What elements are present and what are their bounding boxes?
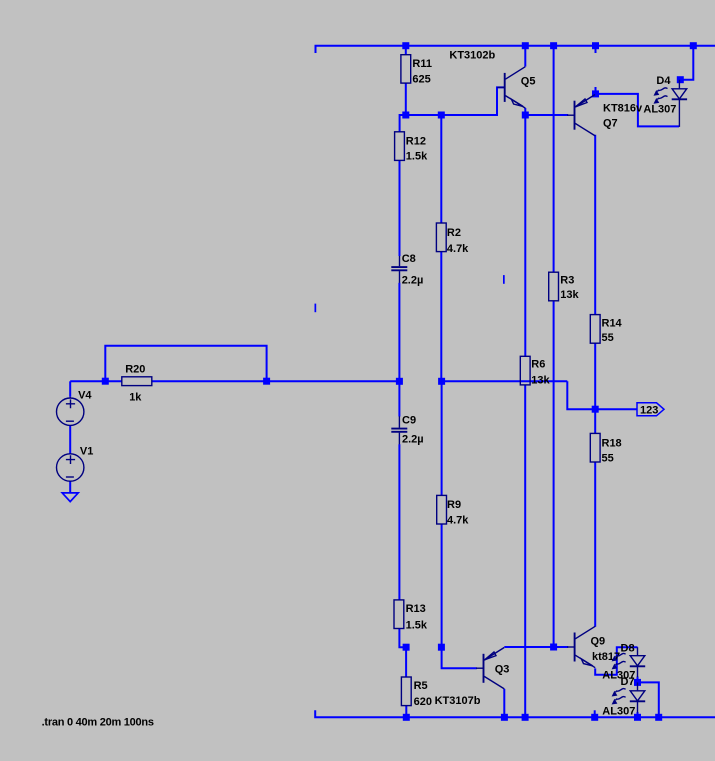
- svg-text:123: 123: [640, 404, 658, 416]
- capacitor C8: [391, 253, 423, 286]
- wire node y381 to R9 top: [441, 381, 443, 495]
- wire Q9 emitter jog to D8 anode: [595, 647, 637, 675]
- wire node y647 jog to Q3 base: [442, 647, 477, 668]
- wire R12 top / node y115 run to Q5 base: [400, 87, 504, 131]
- svg-text:R13: R13: [406, 603, 426, 615]
- wire R20 right pin to C-column node: [152, 380, 400, 382]
- wire D7 cathode to bottom rail: [637, 712, 639, 717]
- wire rail to D4 anode node: [680, 46, 693, 80]
- junction node on rail at R11: [402, 42, 409, 49]
- svg-text:D7: D7: [621, 676, 635, 688]
- junction node bottom rail at D7: [634, 714, 641, 721]
- wire Q3 collector to bottom rail: [503, 689, 505, 717]
- junction node at D4 anode: [677, 76, 684, 83]
- wire R9 bottom to node y647: [441, 524, 443, 647]
- wire node y381 to C9 top: [398, 381, 400, 416]
- svg-text:C9: C9: [402, 415, 416, 427]
- resistor R11: [401, 55, 432, 86]
- junction node on rail at Q5 collector: [522, 42, 529, 49]
- resistor R20: [122, 363, 152, 403]
- svg-text:55: 55: [602, 452, 614, 464]
- junction node on rail at D4 branch: [690, 42, 697, 49]
- wire Q5 collector to rail: [524, 46, 526, 67]
- wire bottom rail: [315, 710, 715, 717]
- wire V4 top pin: [69, 381, 71, 397]
- resistor R6: [520, 356, 550, 386]
- svg-text:R5: R5: [414, 680, 428, 692]
- wire V1 to ground: [69, 481, 71, 493]
- svg-text:KT3102b: KT3102b: [449, 50, 495, 62]
- svg-text:Q7: Q7: [603, 118, 618, 130]
- wire Q7 emitter node to D4 cathode: [596, 94, 680, 127]
- svg-text:55: 55: [602, 332, 614, 344]
- junction node y381 at R2/R9 column: [438, 378, 445, 385]
- junction node on rail at x595 stub: [592, 42, 599, 49]
- svg-text:1.5k: 1.5k: [406, 620, 428, 632]
- svg-text:R9: R9: [447, 499, 461, 511]
- svg-text:R12: R12: [406, 135, 426, 147]
- svg-text:Q5: Q5: [521, 76, 536, 88]
- wire vertical x553 R3 bottom to node y647: [553, 301, 555, 647]
- wire Q7 collector to R14 top: [594, 135, 596, 315]
- junction node on rail at R3 column: [550, 42, 557, 49]
- svg-text:4.7k: 4.7k: [447, 243, 469, 255]
- svg-text:13k: 13k: [560, 289, 579, 301]
- wire C8 bottom to node y381: [398, 283, 400, 382]
- svg-text:KT816v: KT816v: [603, 103, 643, 115]
- wire node y115 to Q7 base: [525, 114, 568, 116]
- svg-text:R20: R20: [125, 363, 145, 375]
- wire R18 bottom to Q9 collector: [594, 462, 596, 627]
- wire top supply rail: [316, 46, 715, 53]
- svg-text:D4: D4: [656, 75, 671, 87]
- resistor R13: [394, 600, 428, 632]
- wire vertical x525 node y115 to R6 top: [524, 115, 526, 356]
- transistor Q3 (PNP KT3107b): [435, 648, 510, 708]
- wire C9 bottom to R13 top: [398, 444, 400, 600]
- wire node y115 to R2 top: [440, 115, 442, 223]
- junction node at Q7 emitter: [592, 90, 599, 97]
- wire stub below top rail at x595: [595, 46, 597, 53]
- svg-text:D8: D8: [621, 643, 635, 655]
- wire D8 cathode to node: [637, 677, 639, 683]
- svg-text:620: 620: [414, 696, 432, 708]
- wire R12 bottom to C8: [399, 160, 401, 256]
- wire R5 bottom to bottom rail: [405, 706, 407, 718]
- net tick mark left: [315, 304, 317, 313]
- wire vertical x553 rail to R3 top: [553, 46, 555, 273]
- wire Q3 emitter to Q9 base: [504, 646, 568, 648]
- svg-text:Q3: Q3: [495, 664, 510, 676]
- voltage source V4: [56, 390, 92, 426]
- resistor R14: [590, 315, 622, 344]
- resistor R18: [590, 433, 621, 464]
- svg-text:V4: V4: [78, 390, 92, 402]
- junction node y647 at R9 column: [438, 644, 445, 651]
- resistor R9: [437, 495, 470, 526]
- svg-text:2.2µ: 2.2µ: [402, 274, 424, 286]
- wire V4 to V1: [69, 426, 71, 454]
- net tick mark middle: [503, 275, 505, 284]
- wire R11 top pin to rail: [405, 46, 407, 55]
- svg-text:R6: R6: [531, 359, 545, 371]
- LED D8 (AL307): [602, 643, 645, 682]
- capacitor C9: [391, 415, 423, 446]
- resistor R3: [549, 272, 580, 301]
- junction node y115 at R2 column: [438, 112, 445, 119]
- transistor Q9 (NPN kt817): [567, 626, 620, 667]
- junction node y381 at C column: [396, 378, 403, 385]
- wire R11 bottom to node y115: [405, 83, 407, 115]
- svg-text:R14: R14: [602, 318, 623, 330]
- ground: [62, 493, 78, 502]
- resistor R5: [401, 677, 432, 708]
- wire main horizontal right section: [442, 380, 568, 382]
- wire node y647 down to R5 top: [405, 647, 407, 677]
- junction node bottom rail at x525: [522, 714, 529, 721]
- junction node y647 at R13/R5: [403, 644, 410, 651]
- wire node y409 to output flag: [595, 408, 637, 410]
- svg-text:V1: V1: [80, 445, 93, 457]
- svg-text:Q9: Q9: [591, 635, 606, 647]
- wire jog from output horizontal down to node y409: [567, 381, 595, 409]
- svg-text:R2: R2: [447, 227, 461, 239]
- LED D4 (AL307): [643, 75, 687, 127]
- voltage source V1: [56, 445, 93, 481]
- wire R13 bottom jog to node y647: [399, 629, 406, 648]
- junction node bottom rail at D8 right leg: [655, 714, 662, 721]
- wire stub above Q7 emitter node: [595, 87, 597, 94]
- transistor Q5 (NPN KT3102b): [497, 67, 535, 108]
- svg-text:1.5k: 1.5k: [406, 150, 428, 162]
- junction node y409 output: [592, 406, 599, 413]
- svg-text:AL307: AL307: [602, 705, 635, 717]
- LED D7 (AL307): [602, 676, 645, 717]
- junction node y115 at R11/R12: [402, 112, 409, 119]
- node 123 output flag: [637, 403, 664, 417]
- svg-text:C8: C8: [402, 253, 416, 265]
- junction node bottom rail at Q3 collector: [501, 714, 508, 721]
- junction node y381 at loop left: [102, 378, 109, 385]
- junction node y381 at loop right: [263, 378, 270, 385]
- wire D8/D7 node right leg to bottom rail: [638, 682, 659, 717]
- svg-text:4.7k: 4.7k: [447, 515, 469, 527]
- wire R2 bottom to node y381: [440, 252, 442, 382]
- junction node at D8/D7: [634, 679, 641, 686]
- resistor R12: [395, 132, 428, 163]
- svg-text:AL307: AL307: [643, 104, 676, 116]
- wire V4 top to R20 left pin: [70, 380, 122, 382]
- transistor Q7 (PNP KT816): [567, 95, 643, 136]
- svg-text:1k: 1k: [129, 391, 142, 403]
- wire R14 bottom through node y409 to R18 top: [594, 343, 596, 433]
- svg-text:2.2µ: 2.2µ: [402, 434, 424, 446]
- junction node bottom rail at x594 stub: [591, 714, 598, 721]
- svg-text:13k: 13k: [531, 375, 550, 387]
- svg-text:.tran 0 40m 20m 100ns: .tran 0 40m 20m 100ns: [42, 716, 154, 728]
- wire stub above bottom rail at x594: [594, 710, 596, 717]
- wire feedback loop over R20: [105, 346, 266, 381]
- junction node y647 at Q3 emitter: [550, 644, 557, 651]
- svg-text:KT3107b: KT3107b: [435, 695, 481, 707]
- svg-text:R18: R18: [602, 438, 622, 450]
- resistor R2: [436, 223, 469, 255]
- junction node y115 at Q5 emitter: [522, 112, 529, 119]
- svg-text:625: 625: [412, 73, 430, 85]
- wire Q5 emitter to node y115: [524, 108, 526, 115]
- svg-text:R11: R11: [412, 58, 432, 70]
- junction node bottom rail at R5: [403, 714, 410, 721]
- svg-text:R3: R3: [560, 275, 574, 287]
- wire vertical x525 R6 bottom to bottom rail: [524, 385, 526, 717]
